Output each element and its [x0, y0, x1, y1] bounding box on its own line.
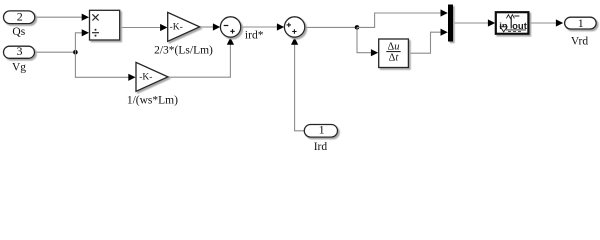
- svg-text:Vg: Vg: [12, 61, 26, 73]
- inout icon down arrow: [500, 27, 507, 32]
- inout icon vertical bar: [510, 18, 512, 29]
- wire Ird to sum2 south: [295, 44, 305, 131]
- inout icon underline: [506, 29, 526, 31]
- node junction Vg: [73, 50, 78, 55]
- wire gain2 to sum1 south: [168, 44, 230, 77]
- wire Qs to divide: [35, 16, 83, 18]
- subsystem inout: [496, 12, 529, 34]
- outport 1 Vrd: [565, 17, 597, 29]
- svg-text:Δt: Δt: [389, 52, 400, 63]
- svg-text:1: 1: [578, 16, 584, 30]
- svg-text:Qs: Qs: [12, 26, 25, 38]
- svg-text:2: 2: [17, 10, 23, 24]
- sum2 plus sign west: [287, 23, 291, 27]
- inout icon zigzag: [506, 15, 519, 19]
- wire junction down to gain2: [75, 52, 129, 77]
- svg-text:Vrd: Vrd: [571, 35, 588, 47]
- svg-text:Ird: Ird: [314, 141, 328, 153]
- wire derivative to mux input2: [408, 32, 441, 53]
- svg-text:1: 1: [319, 122, 325, 136]
- gain G1 2/3*(Ls/Lm): [168, 12, 200, 41]
- svg-text:-K-: -K-: [139, 73, 152, 83]
- svg-text:2/3*(Ls/Lm): 2/3*(Ls/Lm): [154, 44, 213, 56]
- mux M1: [448, 5, 453, 42]
- inport 2 Qs: [4, 11, 35, 24]
- inout icon tick marks: [508, 30, 521, 32]
- node junction after sum2: [355, 25, 360, 30]
- divide block U1: [90, 10, 120, 40]
- wire junction down to derivative: [357, 27, 372, 52]
- wire inout block to Vrd: [529, 22, 557, 24]
- svg-text:1/(ws*Lm): 1/(ws*Lm): [127, 95, 178, 107]
- wire mux to inout block: [453, 22, 489, 24]
- inport 3 Vg: [4, 46, 35, 58]
- svg-text:out: out: [512, 21, 528, 32]
- wire gain1 to sum1: [200, 26, 214, 28]
- wire Vg to junction: [35, 51, 76, 53]
- wire sum2 to junction: [305, 26, 357, 28]
- wire junction up to divide: [75, 33, 82, 52]
- svg-text:ird*: ird*: [245, 30, 264, 42]
- svg-text:-K-: -K-: [170, 23, 183, 33]
- sum block S2: [284, 17, 304, 37]
- wire divide to gain1: [120, 27, 161, 29]
- sum1 minus sign: [224, 25, 229, 27]
- sum1 plus sign: [230, 29, 234, 33]
- derivative block du/dt: [379, 39, 409, 68]
- divide divide sign: [92, 32, 99, 34]
- gain G2 1/(ws*Lm): [136, 62, 168, 91]
- svg-text:Δu: Δu: [387, 42, 399, 53]
- derivative fraction bar: [386, 51, 400, 53]
- wire junction to mux input1: [357, 13, 441, 27]
- wire sum1 to sum2: [241, 26, 278, 28]
- sum2 plus sign south: [292, 29, 296, 33]
- sum block S1: [220, 17, 240, 37]
- divide multiply sign: [92, 14, 98, 20]
- inport 1 Ird: [304, 125, 337, 138]
- svg-text:3: 3: [17, 44, 23, 58]
